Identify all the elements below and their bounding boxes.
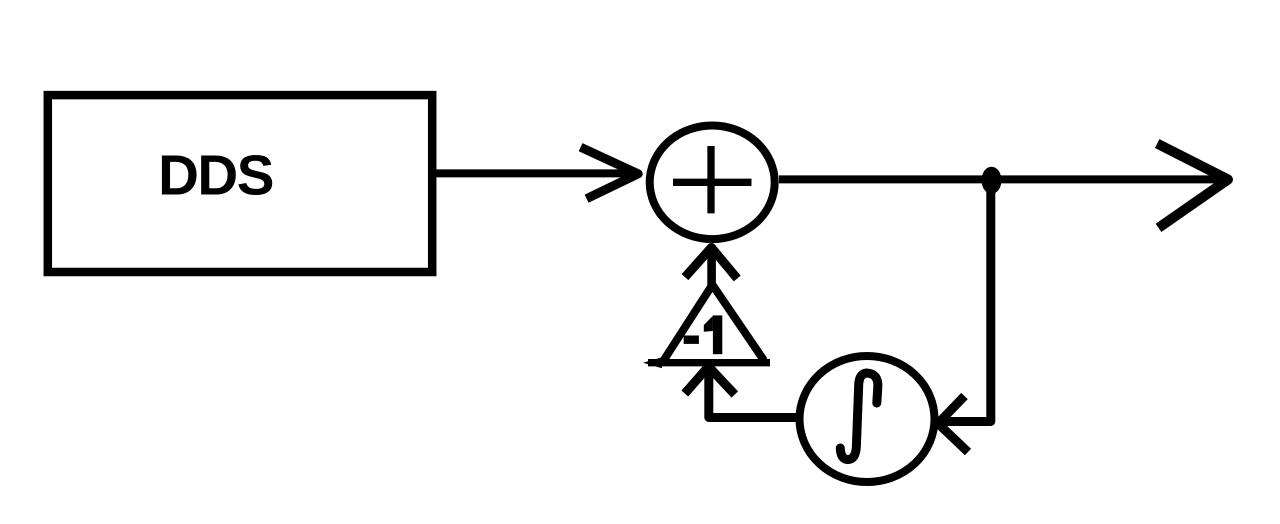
gain triangle -1 — [663, 285, 713, 362]
wire DDS to summer — [434, 169, 631, 177]
block DDS — [48, 95, 432, 272]
wire gain to summer — [707, 247, 716, 286]
integral sign — [840, 373, 878, 460]
arrowhead into integrator — [938, 396, 968, 452]
wire summer to output — [779, 175, 1227, 183]
output arrowhead — [1157, 144, 1228, 228]
label -1 — [684, 336, 699, 344]
wire node down to integrator — [940, 179, 991, 422]
arrowhead into summer — [581, 147, 639, 199]
plus sign — [673, 179, 752, 186]
arrowhead into summer bottom — [685, 248, 737, 279]
arrowhead into gain triangle — [685, 367, 735, 395]
node junction dot — [982, 167, 1002, 194]
wire integrator to gain — [709, 366, 797, 418]
summer U1 circle — [650, 126, 775, 240]
integrator U2 circle — [800, 356, 935, 482]
svg-text:DDS: DDS — [158, 144, 273, 207]
